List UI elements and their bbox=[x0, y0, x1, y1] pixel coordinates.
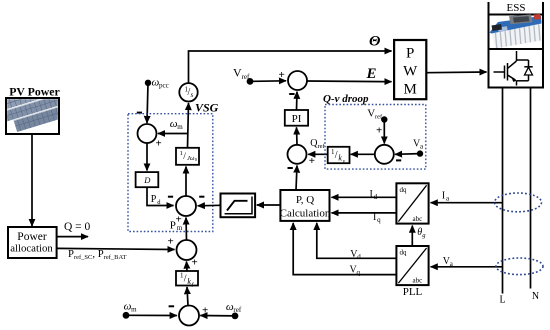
block Power allocation bbox=[8, 227, 57, 258]
svg-text:/: / bbox=[335, 150, 338, 161]
wire Pref to summing junction S2 bbox=[57, 248, 175, 249]
svg-text:s: s bbox=[191, 91, 194, 99]
svg-text:PLL: PLL bbox=[403, 286, 423, 298]
svg-text:Q-v droop: Q-v droop bbox=[323, 93, 369, 105]
wire Id to PQ bbox=[332, 196, 397, 198]
svg-text:k: k bbox=[338, 153, 342, 162]
sign minus Va bbox=[396, 159, 401, 161]
svg-text:V: V bbox=[367, 108, 375, 120]
svg-text:PI: PI bbox=[292, 113, 302, 125]
wire Q output bbox=[57, 236, 88, 238]
block 1/Jw0 bbox=[176, 148, 199, 165]
wire PQ to S6 bbox=[296, 166, 297, 191]
svg-text:abc: abc bbox=[413, 277, 423, 285]
wire Va to S7 bbox=[395, 153, 420, 156]
svg-text:Q = 0: Q = 0 bbox=[64, 221, 91, 233]
svg-text:N: N bbox=[532, 291, 539, 302]
svg-text:+: + bbox=[168, 236, 174, 248]
wire Vref droop to S7 bbox=[383, 120, 385, 144]
sign minus S5 bbox=[289, 93, 294, 95]
wire S7 to 1/kv bbox=[351, 153, 375, 155]
svg-text:E: E bbox=[366, 66, 377, 82]
sign minus Pd bbox=[168, 196, 173, 198]
wire 1/Jw0 to integrator bbox=[188, 103, 189, 148]
svg-text:W: W bbox=[403, 64, 418, 80]
summing junction S7 (droop) bbox=[375, 145, 394, 164]
summing junction S5 (voltage) bbox=[288, 71, 307, 90]
summing junction S3 (frequency) bbox=[138, 124, 157, 143]
summing junction S2 (Pref+1/kf) bbox=[177, 240, 197, 260]
svg-text:dq: dq bbox=[400, 249, 408, 257]
wire Vq to PQ bbox=[293, 223, 396, 275]
svg-text:d: d bbox=[357, 253, 361, 261]
node wref dot bbox=[232, 313, 239, 320]
sign minus wpcc bbox=[137, 112, 142, 114]
VSG dotted box bbox=[128, 114, 213, 232]
block PLL bbox=[396, 246, 428, 285]
node Vref dot bbox=[247, 78, 254, 85]
node Va droop dot bbox=[417, 150, 423, 156]
svg-text:L: L bbox=[499, 295, 505, 306]
svg-text:PV Power: PV Power bbox=[9, 85, 60, 99]
block 1/kv bbox=[328, 147, 350, 163]
wire 1/kf to S2 bbox=[186, 262, 189, 272]
svg-text:d: d bbox=[374, 193, 378, 201]
svg-text:P: P bbox=[170, 219, 176, 231]
voltage measurement ellipse bbox=[496, 258, 543, 275]
svg-text:I: I bbox=[370, 189, 373, 200]
node Vref droop dot bbox=[381, 116, 387, 122]
integrator 1/s bbox=[179, 83, 197, 101]
wire S3 to D block bbox=[146, 143, 148, 171]
block PWM bbox=[394, 40, 426, 99]
wire saturation to S4 bbox=[198, 204, 221, 207]
ESS frame right bbox=[542, 2, 544, 16]
ESS frame left bbox=[488, 2, 490, 16]
svg-text:I: I bbox=[373, 212, 376, 223]
svg-text:allocation: allocation bbox=[10, 243, 53, 255]
current measurement ellipse bbox=[495, 193, 542, 212]
sign minus S6 bbox=[288, 167, 293, 169]
PV panel box bbox=[6, 98, 59, 134]
wire Vd to PQ bbox=[317, 223, 397, 258]
block P,Q Calculation bbox=[280, 190, 329, 221]
svg-text:P, Q: P, Q bbox=[296, 194, 314, 206]
svg-text:Jω: Jω bbox=[187, 155, 195, 162]
wire PI to S5 bbox=[296, 92, 299, 110]
svg-text:/: / bbox=[183, 152, 186, 162]
IGBT symbol bbox=[494, 51, 533, 86]
wire S2 to S4 (Pm) bbox=[185, 218, 188, 240]
block PI bbox=[285, 110, 308, 126]
svg-text:Power: Power bbox=[17, 231, 47, 243]
svg-text:Θ: Θ bbox=[369, 34, 381, 50]
svg-text:pcc: pcc bbox=[159, 82, 169, 90]
wire Vref to summing S5 bbox=[250, 80, 286, 83]
node wpcc dot bbox=[145, 80, 151, 86]
wire PQ to saturation bbox=[257, 204, 281, 206]
svg-text:VSG: VSG bbox=[195, 101, 219, 115]
wire PWM to ESS bbox=[426, 71, 486, 74]
wire D to summing S4 bbox=[147, 187, 174, 205]
svg-text:k: k bbox=[187, 277, 191, 286]
svg-text:q: q bbox=[357, 269, 361, 277]
block 1/kf bbox=[176, 271, 198, 286]
wire wpcc to summing S3 bbox=[147, 83, 148, 123]
wire S1 to 1/kf bbox=[187, 287, 188, 306]
battery image bbox=[490, 14, 542, 49]
svg-text:+: + bbox=[279, 69, 285, 81]
sign minus wm bbox=[169, 305, 175, 307]
wire theta to PWM bbox=[189, 51, 392, 83]
svg-text:m: m bbox=[131, 306, 137, 314]
wire E to PWM bbox=[307, 80, 392, 83]
svg-text:+: + bbox=[156, 138, 162, 150]
wire wref to S1 bbox=[200, 315, 235, 317]
wire Qref from 1/kv to S6 bbox=[308, 153, 328, 155]
block dq-abc current bbox=[396, 183, 428, 223]
summing junction S6 (reactive) bbox=[288, 145, 307, 164]
wire wm branch to S3 bbox=[158, 133, 187, 135]
wire L line bbox=[502, 88, 504, 294]
svg-text:abc: abc bbox=[413, 215, 423, 223]
block D bbox=[136, 172, 159, 187]
wire PV box to Power allocation bbox=[31, 134, 33, 226]
svg-text:M: M bbox=[404, 82, 417, 98]
wire Ia to dq-abc bbox=[431, 202, 502, 204]
wire S6 to PI bbox=[296, 127, 299, 144]
svg-text:ref: ref bbox=[242, 73, 250, 81]
battery box bbox=[489, 15, 544, 50]
Q-v droop dotted box bbox=[325, 105, 426, 170]
summing junction S4 (power) bbox=[176, 196, 196, 216]
svg-text:D: D bbox=[143, 175, 151, 185]
svg-text:+: + bbox=[376, 125, 382, 137]
wire S4 to 1/Jw0 bbox=[185, 167, 187, 197]
IGBT box bbox=[489, 49, 544, 88]
svg-text:dq: dq bbox=[400, 186, 408, 194]
wire wm to S1 bbox=[126, 314, 177, 316]
svg-text:P: P bbox=[151, 194, 157, 205]
summing junction S1 (freq compare) bbox=[179, 306, 199, 326]
svg-text:+: + bbox=[192, 257, 198, 269]
svg-text:+: + bbox=[309, 155, 315, 167]
wire Va to PLL bbox=[431, 266, 502, 268]
svg-text:/: / bbox=[184, 274, 187, 285]
svg-text:Calculation: Calculation bbox=[280, 208, 331, 220]
svg-text:P: P bbox=[406, 46, 414, 62]
svg-text:m: m bbox=[177, 123, 183, 131]
saturation block bbox=[221, 194, 256, 218]
wire N line bbox=[530, 88, 532, 289]
svg-text:m: m bbox=[177, 224, 183, 232]
wire PLL to dq-abc bbox=[411, 226, 413, 246]
svg-text:q: q bbox=[377, 216, 381, 224]
sign minus sat bbox=[199, 196, 204, 198]
svg-text:I: I bbox=[442, 191, 445, 202]
wire Iq to PQ bbox=[332, 212, 397, 214]
node wm dot bbox=[123, 312, 130, 319]
svg-text:ESS: ESS bbox=[507, 2, 526, 14]
